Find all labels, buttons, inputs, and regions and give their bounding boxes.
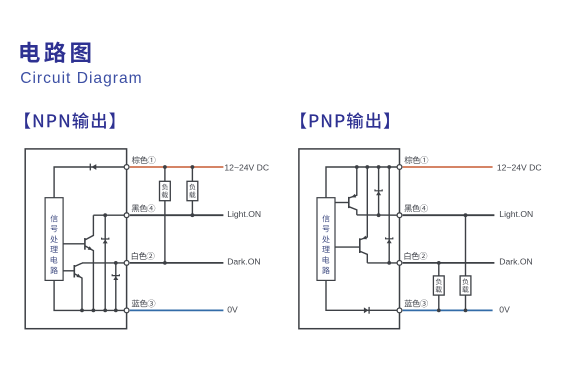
wire: U2 top to brown terminal [326, 167, 400, 198]
blue wire (pin 3) 0V [403, 309, 493, 311]
svg-text:Circuit Diagram: Circuit Diagram [20, 70, 142, 87]
white wire (pin 2) Dark.ON [130, 262, 224, 264]
brown wire (pin 1) to 12-24V DC [403, 166, 493, 168]
zener diode ZD3 (brown to Light.ON) [378, 167, 380, 215]
load resistor RL4 (Light.ON to 0V) [465, 215, 467, 276]
terminal pin 3 blue [397, 308, 402, 313]
junction dots on 0V rail [80, 309, 84, 313]
label 黑色4 [404, 204, 427, 212]
svg-text:Dark.ON: Dark.ON [227, 257, 260, 267]
label 白色2 [132, 252, 155, 260]
transistor Q1 (NPN, Light.ON output) [84, 238, 86, 250]
label 蓝色3 [404, 299, 428, 307]
terminal pin 4 black [397, 213, 402, 218]
zener diode ZD1 across Light.ON output [104, 215, 106, 310]
black wire (pin 4) Light.ON [403, 214, 495, 216]
label 白色2 [405, 252, 428, 260]
terminal pin 1 brown [397, 165, 402, 170]
diode D2 (series, 0V return) [364, 307, 369, 313]
transistor Q2 (NPN, Dark.ON output) [73, 265, 75, 278]
zener diode ZD2 across Dark.ON output [115, 263, 117, 311]
black wire (pin 4) Light.ON [130, 214, 224, 216]
load resistor RL1 (brown to Dark.ON) [164, 167, 166, 181]
wire: Q4 collector to white terminal [367, 262, 399, 264]
terminal pin 1 brown [124, 165, 129, 170]
wire: U2 bottom to 0V with diode D2 [326, 280, 400, 310]
wire: U1 bottom to 0V rail [54, 280, 127, 310]
label 棕色1 [405, 156, 429, 164]
terminal pin 2 white [124, 261, 129, 266]
load resistor RL2 (brown to Light.ON) [191, 167, 193, 181]
PNP sensor enclosure box [299, 149, 400, 329]
title 电路图 [20, 42, 90, 63]
zener diode ZD4 (brown to Dark.ON) [388, 167, 390, 263]
svg-text:12~24V DC: 12~24V DC [224, 163, 269, 173]
wire: U1 top to brown terminal [54, 167, 127, 198]
load resistor RL3 (Dark.ON to 0V) [438, 263, 440, 276]
svg-text:0V: 0V [499, 304, 510, 314]
signal processing circuit block U1 [45, 198, 63, 281]
junction dots on brown rail [355, 165, 359, 169]
wire: Q3 collector to black terminal [357, 214, 400, 216]
section header PNP output [301, 112, 389, 128]
transistor Q3 (PNP, Light.ON output) [348, 197, 350, 208]
transistor Q4 (PNP, Dark.ON output) [359, 238, 361, 253]
label 棕色1 [132, 156, 156, 164]
wire: Q2 collector to white terminal [82, 262, 127, 264]
svg-text:12~24V DC: 12~24V DC [497, 163, 542, 173]
svg-text:Dark.ON: Dark.ON [499, 257, 532, 267]
signal processing circuit block U2 [317, 198, 335, 281]
wire: Q1 collector to black terminal [93, 214, 126, 216]
svg-text:0V: 0V [227, 304, 238, 314]
terminal pin 4 black [124, 213, 129, 218]
blue wire (pin 3) 0V [130, 309, 224, 311]
svg-text:Light.ON: Light.ON [227, 209, 261, 219]
diode D1 (reverse polarity protection) [91, 164, 96, 170]
terminal pin 3 blue [124, 308, 129, 313]
brown wire (pin 1) to 12-24V DC [130, 166, 224, 168]
white wire (pin 2) Dark.ON [403, 262, 495, 264]
terminal pin 2 white [397, 261, 402, 266]
svg-text:Light.ON: Light.ON [499, 209, 533, 219]
section header NPN output [25, 112, 114, 128]
label 黑色4 [132, 204, 155, 212]
NPN sensor enclosure box [25, 149, 126, 329]
label 蓝色3 [132, 299, 156, 307]
